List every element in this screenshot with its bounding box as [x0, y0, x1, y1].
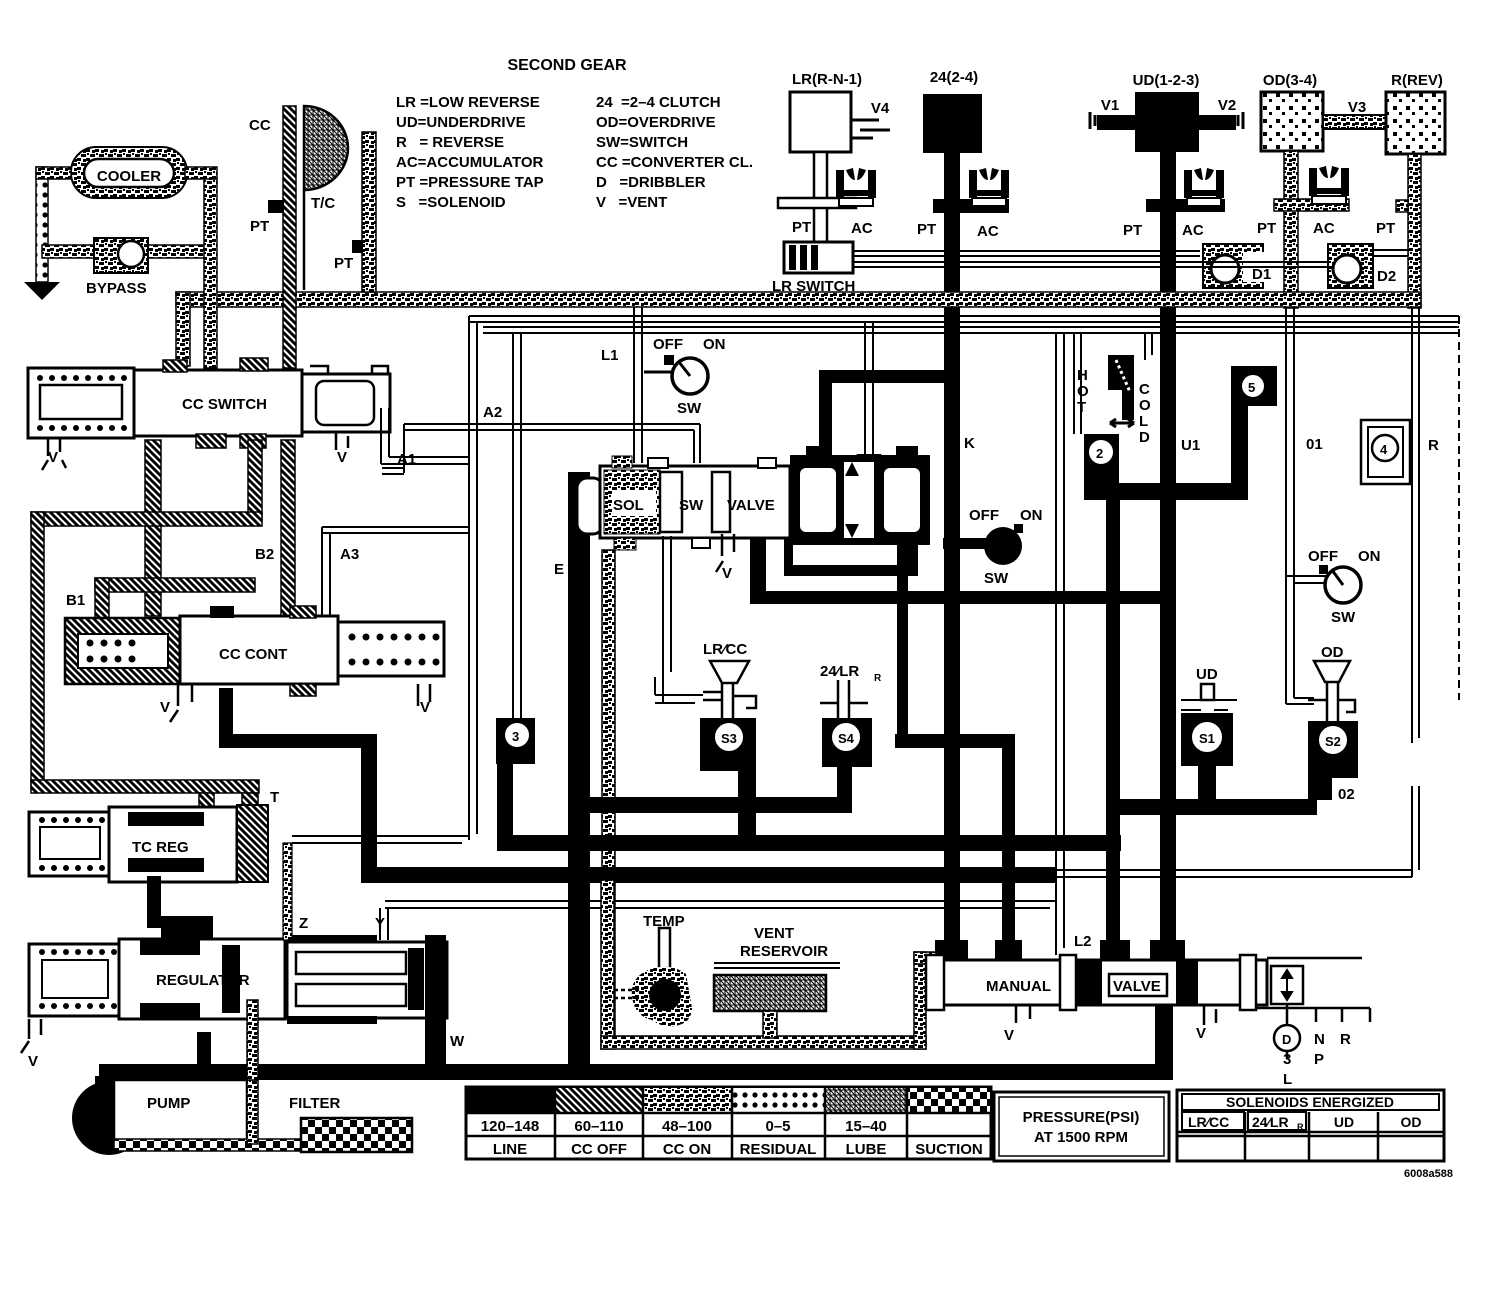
svg-text:B1: B1: [66, 592, 85, 609]
svg-text:PT: PT: [334, 255, 353, 272]
svg-text:MANUAL: MANUAL: [986, 978, 1051, 995]
svg-text:R: R: [874, 673, 882, 684]
svg-text:V: V: [28, 1053, 38, 1070]
svg-text:CC CONT: CC CONT: [219, 646, 287, 663]
svg-text:LR(R-N-1): LR(R-N-1): [792, 71, 862, 88]
svg-text:OFF: OFF: [653, 336, 683, 353]
svg-text:OFF: OFF: [969, 507, 999, 524]
svg-text:02: 02: [1338, 786, 1355, 803]
svg-text:OD=OVERDRIVE: OD=OVERDRIVE: [596, 114, 716, 131]
svg-text:V: V: [337, 449, 347, 466]
svg-text:L: L: [1283, 1071, 1292, 1088]
svg-text:LR⁄CC: LR⁄CC: [1188, 1114, 1229, 1130]
svg-text:PUMP: PUMP: [147, 1095, 190, 1112]
svg-text:SOL: SOL: [613, 497, 644, 514]
svg-text:OFF: OFF: [1308, 548, 1338, 565]
svg-text:SW: SW: [679, 497, 704, 514]
svg-text:ON: ON: [1358, 548, 1381, 565]
svg-text:LR =LOW REVERSE: LR =LOW REVERSE: [396, 94, 540, 111]
svg-text:3: 3: [512, 729, 519, 744]
svg-text:REGULATOR: REGULATOR: [156, 972, 250, 989]
svg-text:CC ON: CC ON: [663, 1141, 711, 1158]
svg-text:24 =2–4 CLUTCH: 24 =2–4 CLUTCH: [596, 94, 721, 111]
svg-text:V: V: [1004, 1027, 1014, 1044]
svg-text:U1: U1: [1181, 437, 1200, 454]
svg-text:BYPASS: BYPASS: [86, 280, 147, 297]
svg-text:5: 5: [1248, 380, 1255, 395]
svg-text:24⁄LR: 24⁄LR: [1252, 1114, 1289, 1130]
svg-text:UD: UD: [1196, 666, 1218, 683]
svg-text:V3: V3: [1348, 99, 1366, 116]
svg-text:SOLENOIDS ENERGIZED: SOLENOIDS ENERGIZED: [1226, 1094, 1394, 1110]
svg-text:UD: UD: [1334, 1114, 1354, 1130]
svg-text:AT 1500 RPM: AT 1500 RPM: [1034, 1129, 1128, 1146]
svg-text:RESIDUAL: RESIDUAL: [740, 1141, 817, 1158]
svg-text:V: V: [420, 699, 430, 716]
svg-text:0–5: 0–5: [765, 1118, 790, 1135]
svg-text:R: R: [1428, 437, 1439, 454]
svg-text:V2: V2: [1218, 97, 1236, 114]
svg-text:3: 3: [1283, 1051, 1291, 1068]
svg-text:PT: PT: [250, 218, 269, 235]
svg-text:R(REV): R(REV): [1391, 72, 1443, 89]
svg-text:H: H: [1077, 367, 1088, 384]
svg-text:D: D: [1139, 429, 1150, 446]
svg-text:S3: S3: [721, 731, 737, 746]
svg-text:OD(3-4): OD(3-4): [1263, 72, 1317, 89]
svg-text:15–40: 15–40: [845, 1118, 887, 1135]
svg-text:VALVE: VALVE: [1113, 978, 1161, 995]
svg-text:COOLER: COOLER: [97, 168, 161, 185]
svg-text:O: O: [1139, 397, 1151, 414]
svg-text:60–110: 60–110: [574, 1118, 623, 1135]
svg-text:N: N: [1314, 1031, 1325, 1048]
svg-text:LR⁄CC: LR⁄CC: [703, 641, 747, 658]
svg-text:PRESSURE(PSI): PRESSURE(PSI): [1023, 1109, 1140, 1126]
svg-text:D =DRIBBLER: D =DRIBBLER: [596, 174, 706, 191]
svg-text:V1: V1: [1101, 97, 1119, 114]
svg-text:SW: SW: [984, 570, 1009, 587]
svg-text:PT: PT: [792, 219, 811, 236]
svg-text:LINE: LINE: [493, 1141, 527, 1158]
svg-text:V: V: [48, 449, 58, 466]
svg-text:48–100: 48–100: [662, 1118, 712, 1135]
svg-text:A3: A3: [340, 546, 359, 563]
svg-text:CC: CC: [249, 117, 271, 134]
svg-text:UD=UNDERDRIVE: UD=UNDERDRIVE: [396, 114, 526, 131]
svg-text:01: 01: [1306, 436, 1323, 453]
svg-text:V: V: [160, 699, 170, 716]
svg-text:V4: V4: [871, 100, 890, 117]
svg-text:R = REVERSE: R = REVERSE: [396, 134, 504, 151]
svg-text:S2: S2: [1325, 734, 1341, 749]
svg-text:AC: AC: [1313, 220, 1335, 237]
svg-text:D1: D1: [1252, 266, 1271, 283]
svg-text:AC=ACCUMULATOR: AC=ACCUMULATOR: [396, 154, 544, 171]
svg-text:R: R: [1297, 1122, 1304, 1132]
svg-text:S1: S1: [1199, 731, 1215, 746]
svg-text:UD(1-2-3): UD(1-2-3): [1133, 72, 1200, 89]
svg-text:VENT: VENT: [754, 925, 794, 942]
svg-text:E: E: [554, 561, 564, 578]
svg-text:CC SWITCH: CC SWITCH: [182, 396, 267, 413]
svg-text:A1: A1: [397, 451, 416, 468]
svg-text:SW: SW: [1331, 609, 1356, 626]
svg-text:Z: Z: [299, 915, 308, 932]
svg-text:B2: B2: [255, 546, 274, 563]
svg-text:PT: PT: [1376, 220, 1395, 237]
svg-text:V: V: [722, 565, 732, 582]
svg-text:ON: ON: [703, 336, 726, 353]
svg-text:TC REG: TC REG: [132, 839, 189, 856]
svg-text:4: 4: [1380, 442, 1388, 457]
svg-text:SUCTION: SUCTION: [915, 1141, 983, 1158]
svg-text:CC =CONVERTER CL.: CC =CONVERTER CL.: [596, 154, 753, 171]
svg-text:L1: L1: [601, 347, 619, 364]
svg-text:6008a588: 6008a588: [1404, 1168, 1453, 1180]
svg-text:2: 2: [1096, 446, 1103, 461]
svg-text:T: T: [270, 789, 279, 806]
svg-text:L: L: [1139, 413, 1148, 430]
svg-text:K: K: [964, 435, 975, 452]
svg-text:FILTER: FILTER: [289, 1095, 341, 1112]
svg-text:SW=SWITCH: SW=SWITCH: [596, 134, 688, 151]
svg-text:AC: AC: [977, 223, 999, 240]
svg-text:PT: PT: [1123, 222, 1142, 239]
svg-text:W: W: [450, 1033, 465, 1050]
svg-text:S4: S4: [838, 731, 855, 746]
svg-text:A2: A2: [483, 404, 502, 421]
svg-text:OD: OD: [1401, 1114, 1422, 1130]
svg-text:S =SOLENOID: S =SOLENOID: [396, 194, 506, 211]
svg-text:RESERVOIR: RESERVOIR: [740, 943, 828, 960]
svg-text:PT =PRESSURE TAP: PT =PRESSURE TAP: [396, 174, 544, 191]
svg-text:120–148: 120–148: [481, 1118, 539, 1135]
svg-text:PT: PT: [1257, 220, 1276, 237]
svg-text:R: R: [1340, 1031, 1351, 1048]
svg-text:OD: OD: [1321, 644, 1344, 661]
svg-text:C: C: [1139, 381, 1150, 398]
svg-text:L2: L2: [1074, 933, 1092, 950]
svg-text:D: D: [1282, 1032, 1291, 1047]
svg-text:24(2-4): 24(2-4): [930, 69, 978, 86]
svg-text:CC OFF: CC OFF: [571, 1141, 627, 1158]
svg-text:D2: D2: [1377, 268, 1396, 285]
svg-text:T/C: T/C: [311, 195, 335, 212]
svg-text:SW: SW: [677, 400, 702, 417]
svg-text:V =VENT: V =VENT: [596, 194, 667, 211]
svg-text:V: V: [1196, 1025, 1206, 1042]
svg-text:ON: ON: [1020, 507, 1043, 524]
svg-text:VALVE: VALVE: [727, 497, 775, 514]
svg-text:SECOND GEAR: SECOND GEAR: [507, 57, 627, 74]
svg-text:AC: AC: [1182, 222, 1204, 239]
svg-text:LUBE: LUBE: [846, 1141, 887, 1158]
svg-text:PT: PT: [917, 221, 936, 238]
svg-text:24⁄LR: 24⁄LR: [820, 663, 859, 680]
svg-text:AC: AC: [851, 220, 873, 237]
svg-text:O: O: [1077, 383, 1089, 400]
svg-text:P: P: [1314, 1051, 1324, 1068]
svg-text:T: T: [1077, 399, 1086, 416]
